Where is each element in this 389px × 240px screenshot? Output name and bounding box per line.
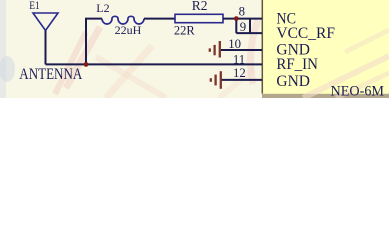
svg-text:9: 9: [240, 20, 246, 34]
watermark pink diagonal center 2: [96, 57, 166, 98]
watermark pink stroke 2: [55, 32, 86, 94]
junction dot at pin8 wire: [234, 16, 239, 21]
antenna stem: [45, 31, 47, 65]
wire: pin 9 line: [236, 32, 262, 34]
watermark pink diagonal a: [303, 56, 389, 98]
wire: second vertical between pin8 and pin9 lines: [249, 19, 251, 33]
svg-text:VCC_RF: VCC_RF: [276, 25, 335, 42]
svg-text:11: 11: [233, 52, 245, 66]
svg-text:E1: E1: [29, 0, 40, 12]
svg-text:GND: GND: [276, 73, 310, 90]
wire: R2 to module pin 8: [223, 18, 262, 20]
module U1 NEO-6M body: [262, 0, 389, 98]
watermark blue band left: [0, 0, 6, 98]
watermark pink diagonal c: [345, 30, 389, 52]
watermark pink stroke 1: [66, 27, 100, 88]
ground symbol at pin 12: [211, 71, 221, 89]
module left border: [261, 0, 263, 94]
wire: L2 to R2: [144, 18, 175, 20]
svg-text:RF_IN: RF_IN: [276, 56, 318, 73]
resistor R2 body: [175, 14, 223, 22]
wire: vertical drop to pin 9 line at junction: [235, 19, 237, 33]
gray band under module bottom: [262, 94, 389, 98]
svg-text:8: 8: [239, 4, 245, 18]
watermark pink diagonal b: [336, 73, 389, 98]
svg-text:10: 10: [228, 37, 241, 51]
svg-text:22R: 22R: [174, 23, 196, 37]
watermark pink near module edge: [250, 20, 258, 84]
svg-text:L2: L2: [96, 1, 109, 15]
svg-text:R2: R2: [192, 0, 208, 13]
junction dot on RF_IN wire: [84, 62, 89, 67]
watermark pink faint pair right-center: [219, 69, 254, 98]
inductor L2 (wavy coil): [102, 16, 144, 24]
svg-text:12: 12: [233, 66, 246, 80]
watermark blue blob bottom-left: [0, 56, 15, 82]
wire: RF_IN line from antenna to pin 11: [46, 63, 263, 65]
watermark pink diagonal center 1: [106, 46, 152, 98]
svg-text:ANTENNA: ANTENNA: [19, 66, 83, 83]
svg-text:NEO-6M: NEO-6M: [331, 83, 385, 98]
svg-text:22uH: 22uH: [115, 23, 142, 37]
wire: pin 12 line to ground: [221, 79, 262, 81]
antenna E1: [33, 13, 58, 31]
wire: pin 10 line to ground: [221, 49, 262, 51]
ground symbol at pin 10: [210, 41, 220, 58]
wire: top bias wire from vertical riser to L2: [86, 19, 102, 65]
